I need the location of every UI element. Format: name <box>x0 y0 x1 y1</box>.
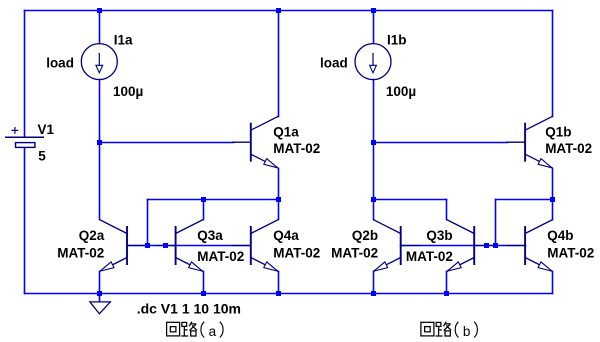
wire mid rail down to bases b <box>495 200 497 246</box>
svg-text:V1: V1 <box>38 122 55 137</box>
wire Q1b collector <box>552 11 554 117</box>
junction node I1b out / Q1b base <box>371 140 376 145</box>
junction junction Q1a emitter / Q4a collector <box>276 197 281 202</box>
wire Q4a emitter <box>278 272 280 294</box>
transistor Q4b <box>507 220 553 272</box>
transistor Q2a <box>99 220 145 272</box>
svg-text:MAT-02: MAT-02 <box>197 249 244 264</box>
wire I1a top <box>99 11 101 44</box>
junction junction base line a / feedback wire <box>145 243 150 248</box>
wire Q2a emitter <box>99 272 101 294</box>
wire Q1a emitter <box>278 169 280 200</box>
junction junction top rail / Q1a collector <box>276 8 281 13</box>
svg-text:100µ: 100µ <box>386 84 416 99</box>
wire bottom ground rail <box>25 293 553 295</box>
svg-text:MAT-02: MAT-02 <box>57 245 104 260</box>
svg-text:a: a <box>209 324 217 339</box>
wire Q4a collector <box>278 200 280 220</box>
wire mid rail circuit a <box>148 199 279 201</box>
ground symbol <box>90 294 110 314</box>
svg-text:Q2b: Q2b <box>352 228 378 243</box>
wire top supply rail <box>25 10 553 12</box>
transistor Q4a <box>233 220 279 272</box>
wire Q3b collector <box>446 200 448 220</box>
svg-text:I1b: I1b <box>387 32 407 47</box>
wire mid rail down to bases a <box>147 200 149 246</box>
junction junction bottom rail / Q3a emitter <box>201 291 206 296</box>
wire left branch lower (V1 to ground rail) <box>24 148 26 294</box>
svg-text:MAT-02: MAT-02 <box>331 245 378 260</box>
current source I1a <box>81 44 117 80</box>
caption kairo (b) <box>421 322 478 338</box>
junction junction base line b pin <box>484 243 489 248</box>
svg-text:Q3b: Q3b <box>426 228 452 243</box>
junction junction Q1b emitter / Q4b collector <box>550 197 555 202</box>
transistor Q3b <box>447 220 493 272</box>
junction junction bottom rail / Q3b emitter <box>444 291 449 296</box>
svg-text:MAT-02: MAT-02 <box>547 245 594 260</box>
svg-text:100µ: 100µ <box>113 84 143 99</box>
junction junction bottom rail / Q4a emitter <box>276 291 281 296</box>
wire Q1b base <box>374 142 508 144</box>
junction junction base line a pin <box>163 243 168 248</box>
junction junction base line b / feedback wire <box>493 243 498 248</box>
transistor Q3a <box>158 220 204 272</box>
wire Q4b collector <box>552 200 554 220</box>
svg-text:Q3a: Q3a <box>197 228 223 243</box>
svg-text:b: b <box>463 324 471 339</box>
junction junction mid rail b / I1b branch <box>371 197 376 202</box>
svg-text:load: load <box>320 56 348 71</box>
wire Q3b emitter <box>446 272 448 294</box>
junction junction top rail / I1b <box>371 8 376 13</box>
svg-text:MAT-02: MAT-02 <box>273 245 320 260</box>
wire node to Q2a collector <box>99 143 101 220</box>
svg-text:MAT-02: MAT-02 <box>273 141 320 156</box>
junction junction mid rail / Q3a collector <box>201 197 206 202</box>
wire I1b bottom to node <box>373 80 375 143</box>
svg-text:MAT-02: MAT-02 <box>545 141 592 156</box>
transistor Q1a <box>233 116 279 168</box>
wire Q1b emitter <box>552 169 554 200</box>
junction junction bottom rail / Q2b emitter <box>371 291 376 296</box>
transistor Q2b <box>373 220 419 272</box>
svg-text:5: 5 <box>38 149 46 164</box>
svg-text:Q2a: Q2a <box>79 228 105 243</box>
current source I1b <box>355 44 391 80</box>
wire Q1a collector <box>278 11 280 117</box>
svg-text:Q1b: Q1b <box>545 125 571 140</box>
svg-text:Q1a: Q1a <box>273 125 299 140</box>
wire mid rail b left segment <box>374 199 447 201</box>
wire Q4b emitter <box>552 272 554 294</box>
caption kairo (a) <box>167 322 224 338</box>
wire Q3a emitter <box>203 272 205 294</box>
wire base line circuit a <box>128 245 251 247</box>
junction junction bottom rail / Q2a emitter / ground <box>97 291 102 296</box>
svg-text:Q4a: Q4a <box>273 228 299 243</box>
wire Q2b emitter <box>373 272 375 294</box>
svg-text:.dc V1 1 10 10m: .dc V1 1 10 10m <box>137 301 241 317</box>
svg-text:Q4b: Q4b <box>547 228 573 243</box>
wire left branch upper (V+ to V1) <box>24 11 26 137</box>
transistor Q1b <box>507 116 553 168</box>
wire base line circuit b <box>401 245 526 247</box>
junction node I1a out / Q1a base <box>97 140 102 145</box>
junction junction top rail / I1a <box>97 8 102 13</box>
voltage source V1 battery symbol <box>5 127 44 147</box>
wire Q3a collector <box>203 200 205 220</box>
wire Q1a base <box>100 142 234 144</box>
svg-text:load: load <box>46 56 74 71</box>
svg-text:MAT-02: MAT-02 <box>406 249 453 264</box>
svg-text:I1a: I1a <box>114 32 133 47</box>
wire node to Q2b collector <box>373 143 375 220</box>
wire mid rail b right segment <box>496 199 553 201</box>
wire I1a bottom to node <box>99 80 101 143</box>
wire I1b top <box>373 11 375 44</box>
